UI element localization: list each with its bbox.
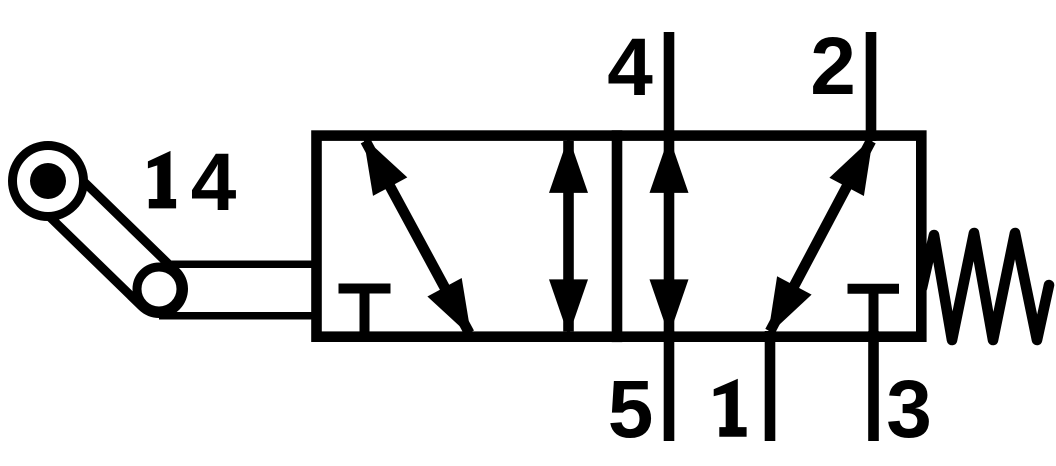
lever pivot circle <box>13 146 84 217</box>
return spring <box>922 233 1049 340</box>
left cell diagonal flow arrow (1 to 4, double headed) <box>363 137 471 337</box>
port 2 line (top) <box>866 32 877 141</box>
left cell blocked port T (port 5 closed) <box>339 289 391 335</box>
left cell vertical flow arrow (2 to 3, double headed) <box>549 136 588 336</box>
port 1 line (bottom) <box>765 331 776 441</box>
lever arm (from pivot to roller) <box>48 181 159 289</box>
svg-text:5: 5 <box>608 364 654 455</box>
port 5 line (bottom) <box>664 331 675 441</box>
roller (small circle) <box>137 267 181 311</box>
position divider line <box>612 130 623 342</box>
label 1 (bottom port, custom glyph with foot) <box>714 379 747 437</box>
svg-text:4: 4 <box>607 22 653 113</box>
svg-text:4: 4 <box>191 137 237 228</box>
actuator rod (horizontal push rod to valve body) <box>148 261 316 320</box>
svg-text:3: 3 <box>886 364 932 455</box>
right cell diagonal flow arrow (1 to 2, double headed) <box>768 137 873 336</box>
port 4 line (top) <box>664 32 675 141</box>
right cell blocked port T (port 3 closed) <box>848 289 900 334</box>
port 3 line (bottom) <box>868 331 879 441</box>
right cell vertical flow arrow (4 to 5, double headed) <box>650 136 689 336</box>
label 14: digit 1 (custom glyph with foot) <box>148 151 176 209</box>
svg-text:2: 2 <box>810 21 856 112</box>
valve body outline (two-position box) <box>317 136 922 337</box>
pivot center dot <box>30 163 66 199</box>
